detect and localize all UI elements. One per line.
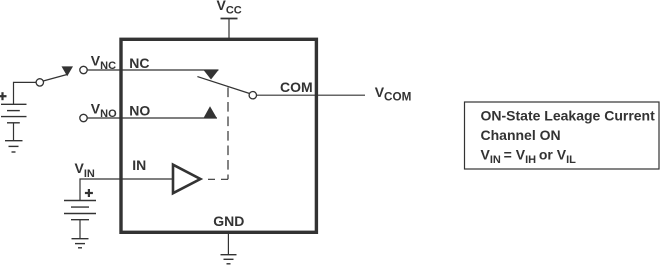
switch S1 arrow	[62, 66, 74, 76]
battery B2	[64, 201, 96, 220]
NC contact arrow	[204, 70, 219, 80]
buffer driver	[173, 165, 200, 194]
wire GND stem	[227, 234, 229, 255]
ground under B1	[5, 141, 23, 152]
svg-text:IN: IN	[132, 157, 146, 173]
switch S1 arm	[43, 75, 67, 82]
terminal VNO	[80, 114, 87, 121]
svg-text:NO: NO	[129, 102, 150, 118]
wire NC	[87, 69, 218, 71]
VCC power bar	[221, 18, 238, 20]
battery B1	[1, 104, 27, 123]
ground under B2	[72, 239, 89, 248]
switch S2 pivot	[249, 92, 256, 99]
svg-text:COM: COM	[280, 79, 313, 95]
dashed control line horizontal	[208, 178, 228, 180]
svg-text:NC: NC	[129, 55, 149, 71]
battery B1 plus	[0, 92, 7, 100]
switch S2 arm	[197, 77, 249, 94]
svg-text:GND: GND	[213, 213, 244, 229]
dashed control line vertical	[227, 88, 229, 180]
wire VIN	[80, 179, 173, 201]
wire battery B1 to ground	[13, 123, 15, 141]
svg-text:Channel ON: Channel ON	[481, 127, 561, 143]
note box	[465, 102, 660, 169]
battery B2 plus	[85, 189, 93, 197]
NO contact arrow	[204, 106, 217, 118]
ground under GND pin	[221, 255, 237, 264]
device box U1	[121, 39, 316, 232]
wire COM	[257, 94, 366, 96]
wire VCC stem	[228, 19, 230, 41]
terminal VNC	[80, 66, 87, 73]
wire NO	[87, 117, 217, 119]
switch S1 pivot	[36, 79, 43, 86]
wire battery B1 to switch	[14, 82, 37, 104]
wire battery B2 to ground	[79, 220, 81, 239]
svg-text:ON-State Leakage Current: ON-State Leakage Current	[481, 107, 656, 123]
